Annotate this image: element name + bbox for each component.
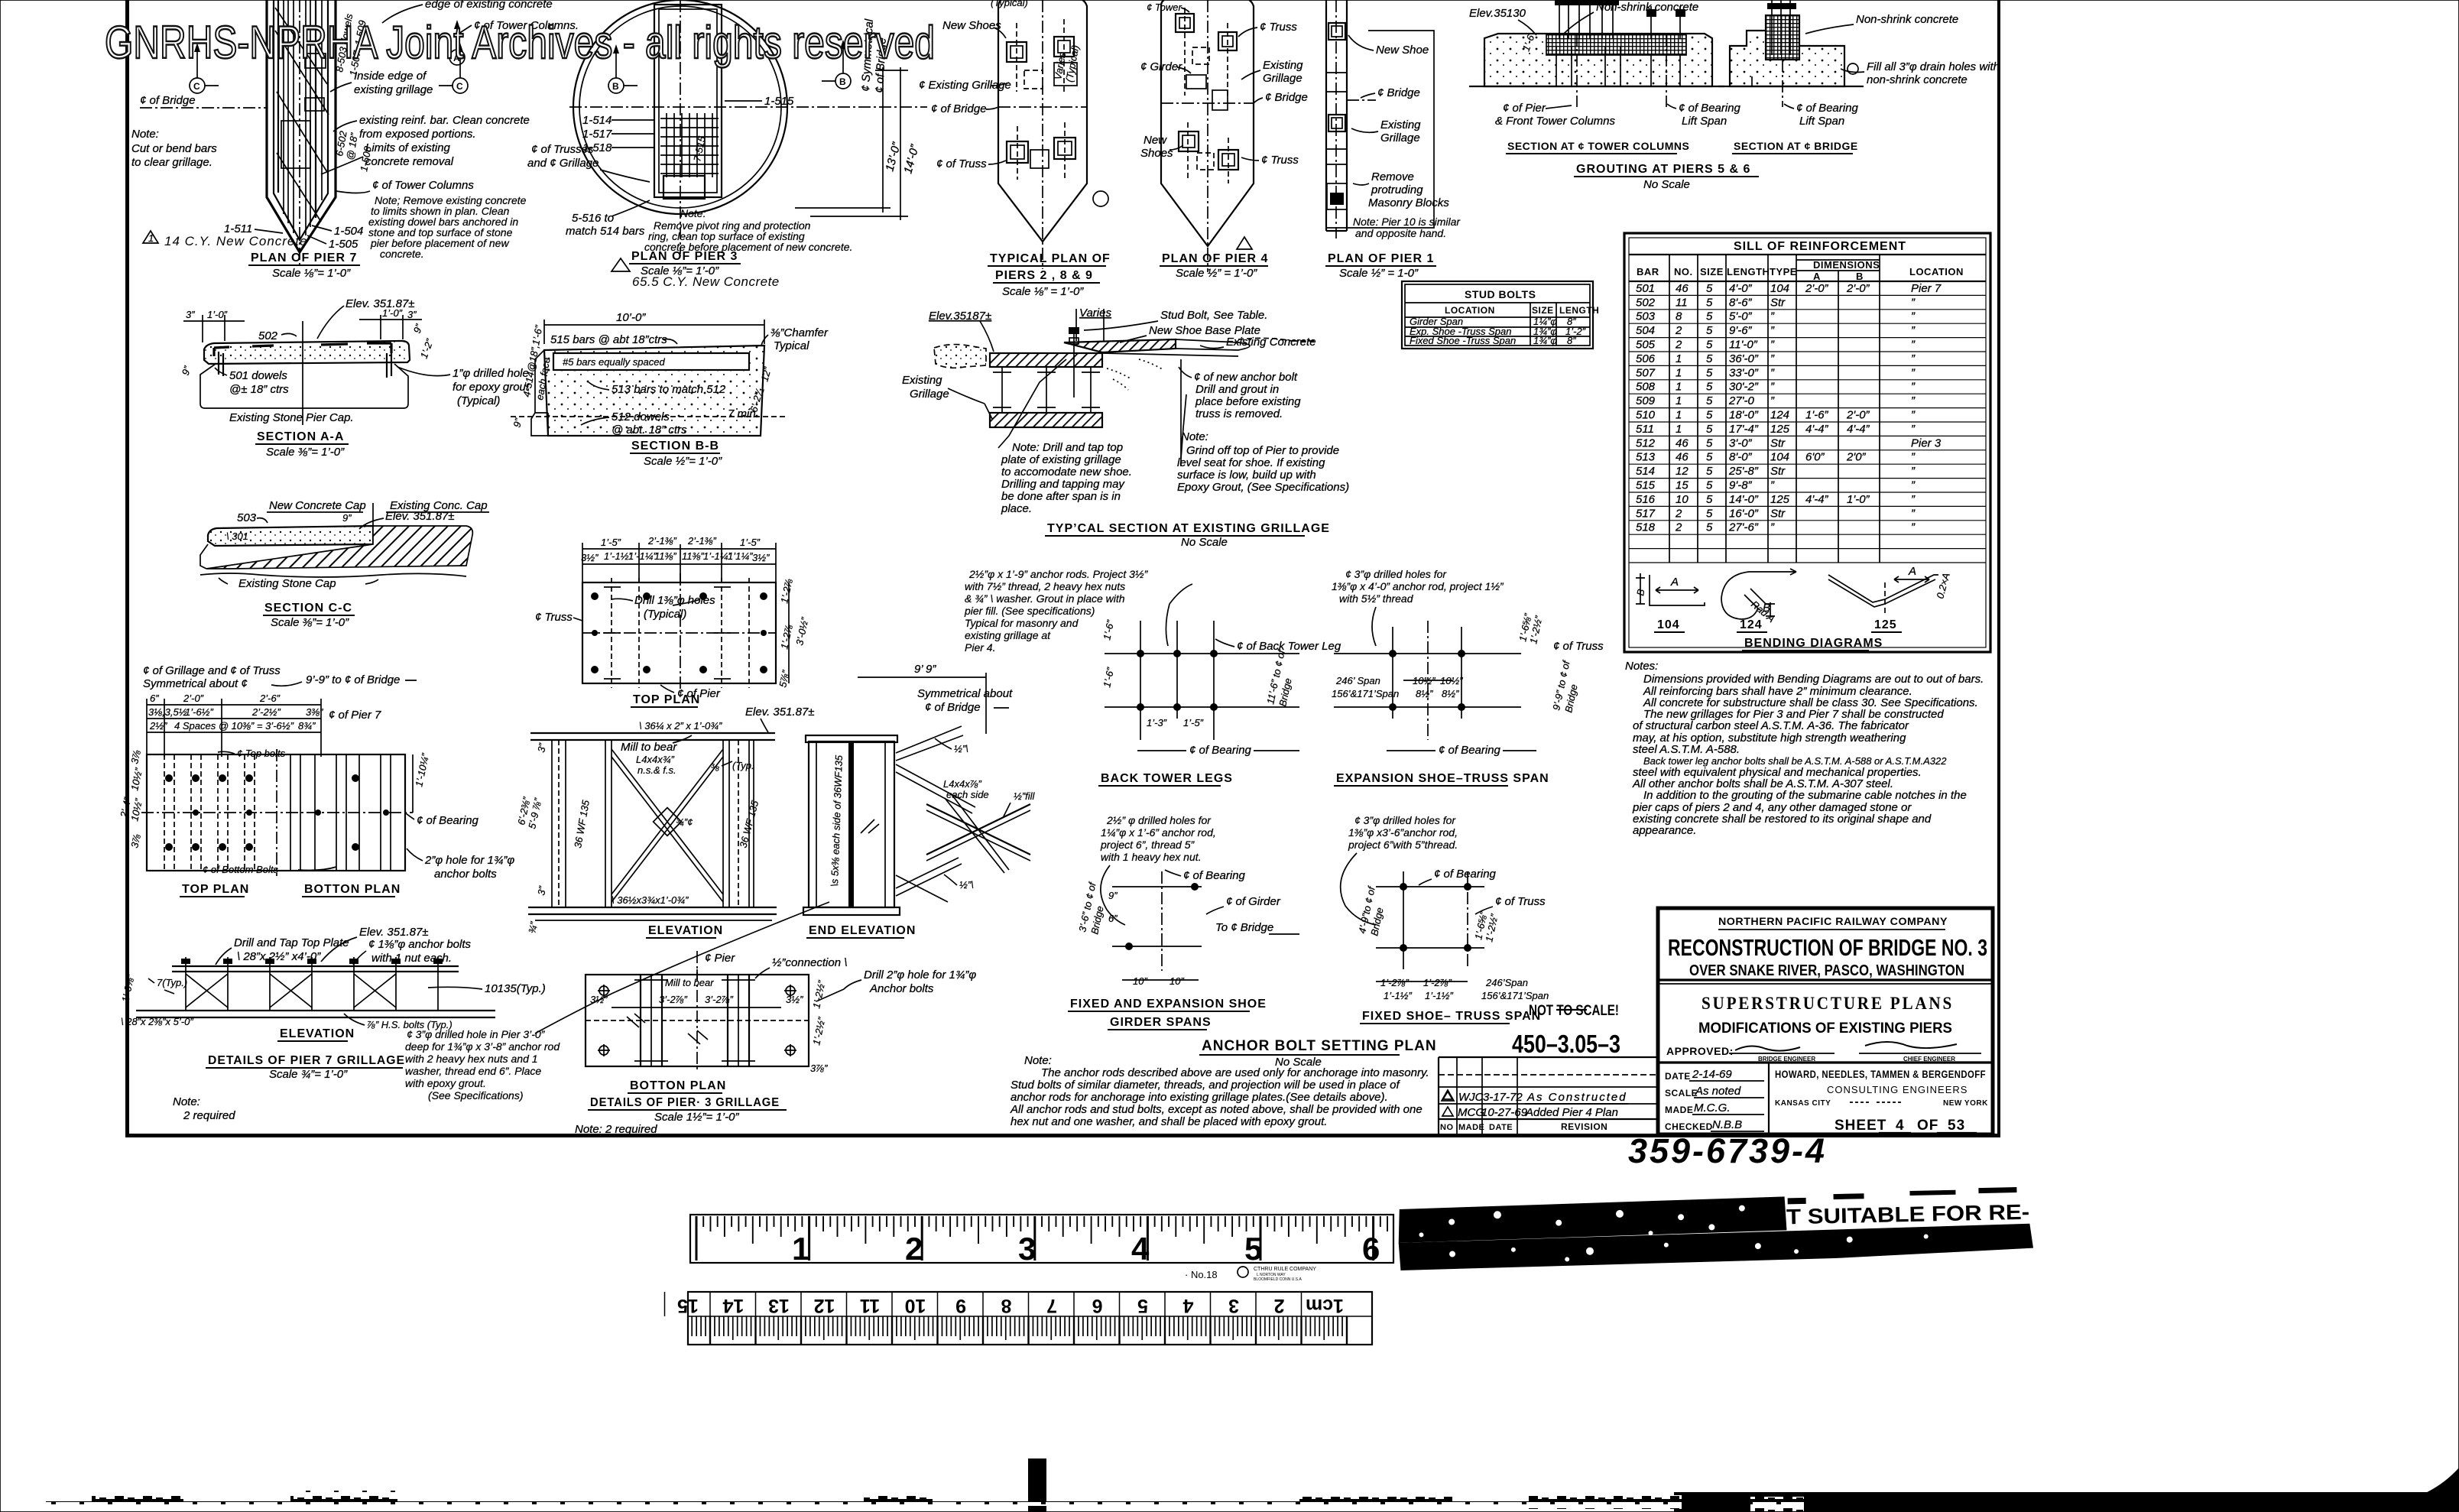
diagram 104 [1636, 573, 1705, 605]
svg-text:for epoxy grout: for epoxy grout [453, 381, 530, 394]
anchor note paragraph [1010, 1054, 1429, 1128]
flange marks [634, 980, 755, 1061]
svg-text:513 bars to match 512: 513 bars to match 512 [612, 383, 726, 396]
svg-text:3½”: 3½” [786, 994, 803, 1005]
svg-text:L4x4x⅞”: L4x4x⅞” [943, 778, 982, 790]
svg-text:10’-0”: 10’-0” [616, 311, 646, 324]
pier 4 upper shoes [1176, 8, 1237, 110]
svg-text:CTHRU RULE COMPANY: CTHRU RULE COMPANY [1254, 1267, 1316, 1272]
svg-text:2: 2 [905, 1231, 923, 1267]
svg-text:SILL OF REINFORCEMENT: SILL OF REINFORCEMENT [1734, 240, 1906, 253]
svg-text:450–3.05–3: 450–3.05–3 [1512, 1030, 1620, 1058]
svg-text:¢ of Truss: ¢ of Truss [1495, 895, 1546, 908]
bending diagrams [1634, 565, 1952, 651]
svg-text:concrete.: concrete. [380, 248, 424, 260]
svg-text:Elev.35130: Elev.35130 [1469, 7, 1526, 20]
svg-text:\ 36¼ x 2” x 1’-0¾”: \ 36¼ x 2” x 1’-0¾” [639, 720, 722, 732]
svg-text:· No.18: · No.18 [1185, 1269, 1218, 1280]
corner bolts [598, 985, 796, 1056]
svg-text:CHIEF ENGINEER: CHIEF ENGINEER [1903, 1056, 1955, 1063]
svg-text:BOTTON PLAN: BOTTON PLAN [304, 883, 401, 896]
svg-text:18'-0”: 18'-0” [1729, 409, 1759, 422]
svg-text:NEW YORK: NEW YORK [1943, 1099, 1988, 1108]
svg-text:As noted: As noted [1695, 1085, 1741, 1098]
svg-text:33'-0”: 33'-0” [1729, 366, 1759, 379]
svg-text:¢ Girder: ¢ Girder [1140, 60, 1182, 73]
svg-text:6: 6 [1362, 1231, 1380, 1267]
svg-text:SECTION B-B: SECTION B-B [631, 440, 719, 453]
svg-text:512: 512 [1636, 436, 1656, 449]
svg-text:BACK TOWER LEGS: BACK TOWER LEGS [1101, 772, 1233, 785]
svg-text:5-516 to: 5-516 to [572, 212, 614, 225]
svg-text:N.B.B: N.B.B [1712, 1118, 1742, 1131]
svg-text:1: 1 [148, 232, 154, 244]
svg-text:MADE: MADE [1665, 1105, 1693, 1115]
svg-text:Elev. 351.87±: Elev. 351.87± [359, 926, 429, 939]
svg-text:513: 513 [1636, 451, 1656, 464]
svg-text:(Typical): (Typical) [457, 394, 500, 407]
pier 3 circle [573, 0, 787, 214]
svg-text:C: C [456, 81, 463, 92]
svg-text:NO: NO [1440, 1123, 1454, 1132]
diagram 124 [1721, 569, 1796, 619]
svg-text:4'-4”: 4'-4” [1847, 423, 1870, 436]
svg-text:to accomodate new shoe.: to accomodate new shoe. [1001, 466, 1132, 479]
rebar hooks top [214, 347, 229, 356]
svg-text:2'-0”: 2'-0” [1846, 282, 1870, 295]
right side dims [412, 754, 414, 813]
svg-text:2: 2 [1274, 1295, 1285, 1316]
svg-text:Existing Concrete: Existing Concrete [1226, 336, 1316, 349]
svg-text:DATE: DATE [1665, 1071, 1691, 1082]
svg-text:506: 506 [1636, 352, 1656, 365]
svg-text:¢ of new anchor bolt: ¢ of new anchor bolt [1194, 371, 1298, 384]
svg-text:124: 124 [1740, 618, 1763, 631]
svg-text:1cm: 1cm [1306, 1295, 1344, 1316]
svg-text:truss is removed.: truss is removed. [1195, 407, 1283, 420]
svg-text:1-515: 1-515 [764, 95, 794, 108]
svg-text:516: 516 [1636, 493, 1656, 506]
svg-text:125: 125 [1770, 493, 1790, 506]
svg-text:9'-6”: 9'-6” [1729, 324, 1753, 337]
center line [302, 321, 303, 425]
right grouting section [1718, 0, 1864, 107]
svg-text:Pier 3: Pier 3 [1911, 436, 1942, 449]
svg-text:Scale 1½”= 1’-0”: Scale 1½”= 1’-0” [654, 1111, 739, 1124]
svg-text:5: 5 [1706, 493, 1713, 506]
svg-text:1: 1 [1676, 423, 1682, 436]
svg-text:TYP’CAL SECTION AT EXISTING: TYP’CAL SECTION AT EXISTING GRILLAGE [1047, 522, 1330, 535]
svg-text:PLAN OF PIER 7: PLAN OF PIER 7 [251, 251, 357, 264]
svg-text:Note:: Note: [1181, 430, 1208, 443]
svg-text:1: 1 [1676, 381, 1682, 394]
svg-text:¢ Truss: ¢ Truss [1261, 154, 1299, 167]
svg-text:1’-5”: 1’-5” [1183, 717, 1204, 728]
svg-text:from exposed portions.: from exposed portions. [359, 128, 476, 141]
svg-text:Elev.35187±: Elev.35187± [929, 310, 991, 323]
svg-text:10-27-69: 10-27-69 [1481, 1106, 1528, 1119]
svg-text:12: 12 [814, 1295, 835, 1316]
svg-text:¢ of Bearing: ¢ of Bearing [417, 814, 479, 827]
svg-text:¢ 3”φ drilled holes for: ¢ 3”φ drilled holes for [1345, 568, 1447, 580]
svg-text:BRIDGE ENGINEER: BRIDGE ENGINEER [1758, 1056, 1815, 1063]
svg-text:REVISION: REVISION [1561, 1121, 1607, 1132]
svg-text:be done after span is in: be done after span is in [1001, 490, 1121, 503]
svg-text:2: 2 [1675, 339, 1682, 352]
svg-text:8: 8 [1676, 310, 1682, 323]
svg-text:2: 2 [1675, 324, 1682, 337]
diagonal braces right [896, 726, 975, 902]
svg-text:SUPERSTRUCTURE PLANS: SUPERSTRUCTURE PLANS [1702, 994, 1954, 1013]
svg-text:Symmetrical about: Symmetrical about [917, 687, 1013, 700]
svg-text:existing reinf. bar. Clean con: existing reinf. bar. Clean concrete [359, 114, 530, 127]
ground line [1469, 86, 1724, 87]
section A-A lower stone block [200, 364, 408, 408]
svg-text:10: 10 [905, 1295, 926, 1316]
svg-text:5: 5 [1706, 409, 1713, 422]
svg-text:2½”: 2½” [149, 720, 167, 732]
pier 7 outline [267, 0, 336, 266]
svg-text:The anchor rods described abov: The anchor rods described above are used… [1041, 1066, 1429, 1079]
back tower legs diagram [1098, 584, 1341, 787]
svg-text:2’-1⅜”: 2’-1⅜” [687, 535, 717, 547]
svg-text:517: 517 [1636, 507, 1656, 520]
section A-A cap concrete band [183, 321, 428, 425]
svg-text:510: 510 [1636, 409, 1656, 422]
svg-text:Cut or bend bars: Cut or bend bars [131, 142, 217, 155]
svg-text:3½”: 3½” [581, 552, 599, 563]
svg-text:Non-shrink concrete: Non-shrink concrete [1856, 13, 1958, 26]
grillage top plate hatched [990, 353, 1102, 367]
svg-text:SHEET: SHEET [1835, 1118, 1886, 1134]
svg-text:existing grillage at: existing grillage at [965, 629, 1051, 641]
svg-text:¢ of Pier: ¢ of Pier [1503, 102, 1546, 115]
svg-text:10”: 10” [1169, 975, 1184, 987]
svg-text:Str: Str [1770, 296, 1786, 309]
svg-text:Existing: Existing [902, 374, 942, 387]
svg-text:Epoxy Grout, (See Specificatio: Epoxy Grout, (See Specifications) [1177, 481, 1349, 494]
svg-text:1’-2⅞”: 1’-2⅞” [1423, 977, 1452, 988]
shoes upper level pier289 [1007, 19, 1077, 92]
svg-text:STUD BOLTS: STUD BOLTS [1465, 288, 1536, 300]
center lines below left block [1576, 34, 1578, 107]
svg-text:4: 4 [1182, 1295, 1193, 1316]
svg-text:104: 104 [1770, 282, 1789, 295]
svg-text:edge of existing concrete: edge of existing concrete [425, 0, 553, 11]
svg-text:14 C.Y. New Concrete: 14 C.Y. New Concrete [164, 234, 308, 248]
svg-text:LENGTH: LENGTH [1559, 305, 1599, 316]
svg-text:Note: Drill and tap top: Note: Drill and tap top [1012, 441, 1123, 454]
svg-text:TOP PLAN: TOP PLAN [182, 883, 249, 896]
svg-text:¾”¢: ¾”¢ [676, 816, 693, 828]
svg-text:⅜: ⅜ [711, 761, 719, 773]
section C-C new concrete part [208, 526, 373, 546]
svg-text:3⅛,3,5½: 3⅛,3,5½ [148, 706, 187, 718]
rect [586, 975, 809, 1066]
svg-text:New: New [1144, 134, 1167, 147]
svg-text:OVER SNAKE RIVER, PASCO, WASHI: OVER SNAKE RIVER, PASCO, WASHINGTON [1689, 962, 1964, 979]
svg-text:2: 2 [1675, 521, 1682, 534]
svg-text:2 required: 2 required [183, 1109, 235, 1122]
svg-text:¢ of Bearing: ¢ of Bearing [1434, 868, 1497, 881]
svg-text:2’-6”: 2’-6” [259, 693, 281, 704]
svg-text:Remove: Remove [1371, 170, 1414, 183]
svg-text:Pier 7: Pier 7 [1911, 282, 1942, 295]
new shoe base plate strip [1064, 339, 1176, 352]
svg-text:503: 503 [237, 511, 257, 524]
svg-text:10”: 10” [1133, 975, 1147, 987]
svg-text:4'-0”: 4'-0” [1729, 282, 1753, 295]
svg-text:27'-0: 27'-0 [1728, 394, 1755, 407]
svg-text:104: 104 [1657, 618, 1680, 631]
svg-text:3½”: 3½” [590, 994, 608, 1005]
sheet border left [125, 0, 129, 1137]
svg-text:Scale ⅜”= 1’-0”: Scale ⅜”= 1’-0” [271, 616, 349, 629]
svg-text:¢ Bridge: ¢ Bridge [1265, 91, 1308, 104]
svg-text:5: 5 [1706, 366, 1713, 379]
svg-text:36'-0”: 36'-0” [1729, 352, 1759, 365]
svg-text:Grillage: Grillage [1380, 131, 1420, 144]
svg-text:509: 509 [1636, 394, 1656, 407]
svg-text:SCALE: SCALE [1665, 1088, 1698, 1098]
svg-text:with 7½” thread, 2 heavy hex n: with 7½” thread, 2 heavy hex nuts [965, 580, 1125, 592]
svg-text:3: 3 [1228, 1295, 1239, 1316]
svg-text:2'-0”: 2'-0” [1805, 282, 1829, 295]
svg-text:RECONSTRUCTION OF BRIDGE NO. 3: RECONSTRUCTION OF BRIDGE NO. 3 [1668, 934, 1987, 961]
svg-text:⅜”Chamfer: ⅜”Chamfer [770, 326, 829, 339]
svg-text:(Typ.: (Typ. [732, 760, 754, 771]
svg-text:GNRHS-NPRHA Joint Archives - a: GNRHS-NPRHA Joint Archives - all rights … [105, 17, 935, 68]
svg-text:1’-1¼”: 1’-1¼” [628, 550, 657, 562]
svg-text:Existing Stone Pier Cap.: Existing Stone Pier Cap. [229, 411, 354, 424]
svg-text:¢ 3”φ drilled holes for: ¢ 3”φ drilled holes for [1354, 814, 1456, 826]
right rotated dims [788, 582, 790, 683]
svg-text:5: 5 [1706, 394, 1713, 407]
svg-text:surface is low, build up with: surface is low, build up with [1177, 469, 1316, 482]
svg-text:SECTION AT ¢ BRIDGE: SECTION AT ¢ BRIDGE [1734, 140, 1858, 152]
svg-text:Scale ½”= 1’-0”: Scale ½”= 1’-0” [644, 455, 722, 468]
svg-text:BOTTON PLAN: BOTTON PLAN [630, 1079, 726, 1092]
svg-text:NORTHERN PACIFIC RAILWAY CO: NORTHERN PACIFIC RAILWAY COMPANY [1718, 915, 1948, 927]
svg-text:53: 53 [1948, 1118, 1965, 1134]
dashed beam lines vertical [611, 578, 612, 688]
svg-text:1’-6½”: 1’-6½” [185, 706, 214, 718]
svg-text:46: 46 [1676, 451, 1689, 464]
pier 1 outline [1326, 0, 1434, 238]
svg-text:GROUTING AT PIERS 5 & 6: GROUTING AT PIERS 5 & 6 [1576, 163, 1750, 176]
svg-text:1: 1 [1676, 394, 1682, 407]
svg-text:5: 5 [1706, 436, 1713, 449]
marker B left [608, 44, 637, 93]
svg-text:¢ Bridge: ¢ Bridge [1377, 86, 1420, 99]
svg-text:2’-1⅜”: 2’-1⅜” [647, 535, 677, 547]
svg-text:1: 1 [1676, 409, 1682, 422]
section marker C right [439, 43, 468, 93]
svg-text:515: 515 [1636, 479, 1656, 492]
svg-text:BENDING DIAGRAMS: BENDING DIAGRAMS [1744, 637, 1883, 650]
svg-text:Elev. 351.87±: Elev. 351.87± [385, 510, 455, 523]
bottom left fields [1768, 1063, 1770, 1134]
svg-text:3’-2⅞”: 3’-2⅞” [705, 994, 734, 1005]
svg-text:6: 6 [1092, 1295, 1103, 1316]
svg-text:anchor bolts: anchor bolts [434, 868, 497, 881]
svg-text:Lift Span: Lift Span [1799, 115, 1844, 128]
svg-text:8'-0”: 8'-0” [1729, 451, 1753, 464]
svg-text:¢ of Pier 7: ¢ of Pier 7 [329, 709, 381, 722]
svg-text:¢ of Trusses: ¢ of Trusses [531, 143, 594, 156]
svg-text:Limits of existing: Limits of existing [365, 141, 451, 154]
bolts with heads above [186, 957, 438, 1011]
svg-text:7: 7 [1046, 1295, 1057, 1316]
svg-text:Str: Str [1770, 436, 1786, 449]
expansion shoe truss note [1332, 568, 1504, 646]
svg-text:A: A [1813, 271, 1821, 282]
svg-text:BLOOMFIELD CONN U.S.A: BLOOMFIELD CONN U.S.A [1254, 1277, 1302, 1282]
svg-text:ELEVATION: ELEVATION [648, 924, 723, 937]
svg-text:Varies: Varies [1079, 307, 1111, 320]
svg-text:Grillage: Grillage [1263, 72, 1302, 85]
svg-text:New Shoe: New Shoe [1376, 44, 1429, 57]
svg-text:3½”: 3½” [752, 552, 770, 563]
svg-text:10135(Typ.): 10135(Typ.) [485, 982, 546, 995]
main rect [147, 754, 405, 871]
svg-text:¢ Top bolts: ¢ Top bolts [237, 748, 286, 759]
svg-text:TYPE: TYPE [1770, 266, 1797, 277]
svg-text:1'-6”: 1'-6” [1805, 409, 1829, 422]
svg-text:Mill to bear: Mill to bear [621, 741, 677, 754]
svg-text:NOT TO SCALE!: NOT TO SCALE! [1529, 1003, 1619, 1019]
svg-text:place.: place. [1001, 502, 1032, 515]
svg-text:1'-0”: 1'-0” [1847, 493, 1870, 506]
svg-text:Shoes: Shoes [1140, 147, 1173, 160]
svg-text:504: 504 [1636, 324, 1655, 337]
svg-text:Symmetrical about ¢: Symmetrical about ¢ [143, 677, 248, 690]
svg-text:C: C [193, 81, 200, 92]
fixed and expansion shoe girder diagram [1068, 869, 1299, 1030]
svg-text:and opposite hand.: and opposite hand. [1355, 227, 1446, 239]
svg-text:PLAN OF PIER 3: PLAN OF PIER 3 [631, 250, 738, 263]
svg-text:Back tower leg anchor bolts sh: Back tower leg anchor bolts shall be A.S… [1643, 755, 1947, 767]
svg-text:2”φ hole for 1¾”φ: 2”φ hole for 1¾”φ [424, 854, 514, 867]
flange tick pairs top/bottom [604, 587, 731, 679]
shoes lower level pier289 [1007, 122, 1075, 180]
svg-text:2’-0”: 2’-0” [183, 693, 204, 704]
svg-text:5: 5 [1706, 507, 1713, 520]
black tab [1028, 1458, 1046, 1512]
svg-text:11⅜”: 11⅜” [682, 550, 704, 562]
svg-text:Scale ⅛”= 1’-0”: Scale ⅛”= 1’-0” [272, 267, 351, 280]
section A-A dims [180, 307, 436, 377]
svg-text:4'-4”: 4'-4” [1805, 493, 1829, 506]
svg-text:9”: 9” [1108, 890, 1118, 901]
svg-text:GIRDER SPANS: GIRDER SPANS [1110, 1016, 1212, 1029]
svg-text:125: 125 [1770, 423, 1790, 436]
svg-text:Added Pier 4 Plan: Added Pier 4 Plan [1525, 1106, 1618, 1119]
svg-text:Scale ⅛” = 1’-0”: Scale ⅛” = 1’-0” [1002, 285, 1084, 298]
svg-text:to clear grillage.: to clear grillage. [131, 156, 212, 169]
svg-text:Notes:: Notes: [1625, 660, 1658, 673]
svg-text:¢ Truss: ¢ Truss [1260, 21, 1297, 34]
svg-text:508: 508 [1636, 381, 1656, 394]
beam pairs [641, 975, 749, 1066]
svg-text:5'-0”: 5'-0” [1729, 310, 1753, 323]
svg-text:4 Spaces @ 10⅜” = 3’-6½”: 4 Spaces @ 10⅜” = 3’-6½” [174, 720, 294, 732]
svg-text:LENGTH: LENGTH [1727, 266, 1770, 277]
svg-text:17'-4”: 17'-4” [1729, 423, 1759, 436]
back tower legs note [964, 568, 1149, 654]
svg-text:4: 4 [1896, 1118, 1905, 1134]
svg-text:DETAILS OF PIER· 3 GRILLAGE: DETAILS OF PIER· 3 GRILLAGE [590, 1096, 780, 1109]
svg-text:7(Typ.): 7(Typ.) [157, 977, 187, 988]
svg-text:125: 125 [1874, 618, 1897, 631]
svg-text:DETAILS OF PIER 7 GRILLAGE: DETAILS OF PIER 7 GRILLAGE [208, 1054, 405, 1067]
svg-text:Scale ⅜”= 1’-0”: Scale ⅜”= 1’-0” [266, 446, 345, 459]
svg-text:¢ of Truss: ¢ of Truss [936, 157, 987, 170]
svg-text:359-6739-4: 359-6739-4 [1628, 1131, 1827, 1170]
svg-text:507: 507 [1636, 366, 1656, 379]
svg-text:12: 12 [1676, 465, 1689, 478]
svg-text:5: 5 [1706, 381, 1713, 394]
X braces double lines [612, 749, 723, 902]
svg-text:1’-5”: 1’-5” [601, 537, 621, 548]
svg-text:1-504: 1-504 [334, 225, 363, 238]
svg-text:27'-6”: 27'-6” [1728, 521, 1759, 534]
svg-text:1¾”φ: 1¾”φ [1533, 335, 1557, 346]
svg-text:Note:: Note: [131, 128, 159, 141]
svg-text:Fill all 3”φ drain holes with: Fill all 3”φ drain holes with [1867, 60, 2000, 73]
svg-text:156’&171’Span: 156’&171’Span [1481, 990, 1549, 1001]
svg-text:PLAN OF PIER 1: PLAN OF PIER 1 [1328, 252, 1434, 265]
svg-text:5: 5 [1706, 521, 1713, 534]
svg-text:non-shrink concrete: non-shrink concrete [1867, 73, 1968, 86]
svg-text:8'-6”: 8'-6” [1729, 296, 1753, 309]
svg-text:2'0”: 2'0” [1846, 451, 1867, 464]
svg-text:½”connection \: ½”connection \ [772, 956, 847, 969]
table column lines [1669, 255, 1880, 563]
svg-text:1¼”φ x 1’-6” anchor rod,: 1¼”φ x 1’-6” anchor rod, [1101, 826, 1216, 839]
svg-text:Lift Span: Lift Span [1682, 115, 1727, 128]
svg-text:1: 1 [1676, 366, 1682, 379]
svg-text:n.s.& f.s.: n.s.& f.s. [637, 764, 676, 776]
svg-text:All anchor rods and stud bolts: All anchor rods and stud bolts, except a… [1010, 1103, 1423, 1116]
svg-text:Drill and grout in: Drill and grout in [1195, 383, 1279, 396]
svg-text:9'-8”: 9'-8” [1729, 479, 1753, 492]
section C-C existing hatched part [206, 526, 472, 569]
svg-text:DIMENSIONS: DIMENSIONS [1813, 259, 1880, 271]
svg-text:FIXED SHOE– TRUSS SPAN: FIXED SHOE– TRUSS SPAN [1362, 1010, 1541, 1023]
svg-text:TOP PLAN: TOP PLAN [633, 693, 700, 706]
svg-text:5: 5 [1137, 1295, 1148, 1316]
svg-text:Drill and Tap Top Plate: Drill and Tap Top Plate [234, 936, 349, 949]
svg-text:46: 46 [1676, 436, 1689, 449]
svg-text:place before existing: place before existing [1195, 395, 1301, 408]
svg-text:14: 14 [723, 1295, 745, 1316]
svg-text:9”: 9” [342, 512, 352, 524]
svg-text:11⅜”: 11⅜” [654, 550, 676, 562]
svg-text:Stud Bolt, See Table.: Stud Bolt, See Table. [1160, 309, 1267, 322]
svg-text:1”φ drilled hole: 1”φ drilled hole [453, 367, 529, 380]
pier 7 inner shoe rectangles [305, 54, 326, 68]
svg-text:Anchor bolts: Anchor bolts [869, 982, 934, 995]
pier 2,8,9 outline [998, 0, 1087, 269]
svg-text:4: 4 [1131, 1231, 1150, 1267]
svg-text:WJC: WJC [1458, 1091, 1484, 1104]
svg-text:New Concrete Cap: New Concrete Cap [269, 499, 366, 512]
svg-text:5: 5 [1706, 324, 1713, 337]
svg-text:8: 8 [1001, 1295, 1011, 1316]
columns [552, 740, 754, 907]
pier 4 outline [1161, 0, 1254, 272]
